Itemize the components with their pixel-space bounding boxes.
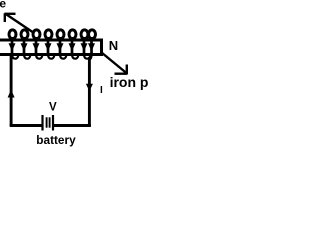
svg-text:I: I	[100, 85, 103, 96]
svg-text:N: N	[109, 38, 118, 53]
svg-text:battery: battery	[36, 133, 76, 147]
svg-text:iron p: iron p	[110, 74, 149, 90]
svg-text:e: e	[0, 0, 6, 11]
svg-text:V: V	[49, 102, 57, 114]
